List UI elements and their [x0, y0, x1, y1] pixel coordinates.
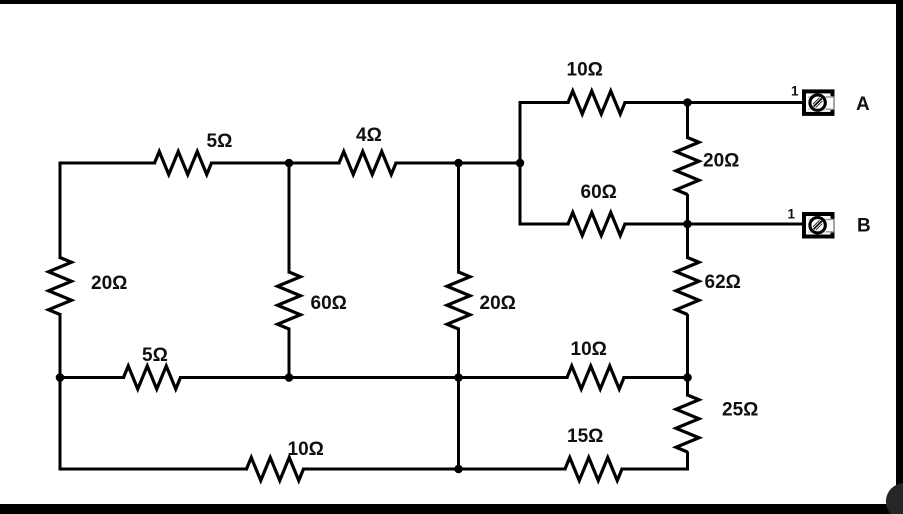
- wire node2 vertical upper: [457, 163, 460, 272]
- wire left vertical lower + bottom left run: [60, 315, 247, 470]
- svg-text:20Ω: 20Ω: [703, 151, 739, 172]
- svg-text:B: B: [857, 216, 871, 237]
- wire row right: [624, 376, 688, 379]
- wire bottom middle run: [304, 468, 566, 471]
- wire row middle: [181, 376, 568, 379]
- node dot A-line: [683, 98, 692, 107]
- svg-text:10Ω: 10Ω: [567, 60, 603, 81]
- svg-text:60Ω: 60Ω: [311, 293, 347, 314]
- wire bottom right run + right corner up: [622, 453, 688, 469]
- svg-text:62Ω: 62Ω: [705, 272, 741, 293]
- resistor 10ohm bottom: [247, 458, 304, 481]
- node dot bottom-20ohm: [454, 465, 463, 474]
- node dot row-right: [683, 373, 692, 382]
- svg-text:4Ω: 4Ω: [356, 125, 382, 146]
- node dot B-line: [683, 220, 692, 229]
- wire main horizontal right: [396, 162, 520, 165]
- resistor 20ohm A-B vertical: [676, 138, 699, 195]
- wire A-line to terminal A: [625, 101, 802, 104]
- svg-text:1: 1: [788, 207, 796, 222]
- right black border: [896, 0, 903, 514]
- resistor 62ohm vertical: [676, 258, 699, 315]
- resistor 10ohm top: [568, 91, 625, 114]
- dark rounded corner overlay: [886, 483, 903, 514]
- wire A-line split vertical: [520, 103, 568, 225]
- resistor 60ohm mid vertical: [278, 272, 301, 329]
- wire right column segment 3: [686, 316, 689, 396]
- resistor 20ohm left vertical: [49, 258, 72, 315]
- svg-text:20Ω: 20Ω: [480, 293, 516, 314]
- wire B-line to terminal B: [625, 223, 802, 226]
- wire main horizontal left + left vertical: [60, 163, 155, 258]
- node dot main-20ohm: [454, 159, 463, 168]
- terminal B: [804, 214, 837, 237]
- node dot row-60ohm: [285, 373, 294, 382]
- svg-text:25Ω: 25Ω: [722, 400, 758, 421]
- svg-text:60Ω: 60Ω: [581, 182, 617, 203]
- node dot main-split: [516, 159, 525, 168]
- resistor 60ohm B-line: [568, 213, 625, 236]
- svg-text:15Ω: 15Ω: [567, 426, 603, 447]
- node dot row-20ohm: [454, 373, 463, 382]
- svg-text:5Ω: 5Ω: [207, 131, 233, 152]
- node dot row-left: [56, 373, 65, 382]
- wire right column segment 2: [686, 196, 689, 258]
- resistor 5ohm top: [155, 152, 212, 175]
- resistor 4ohm: [339, 152, 396, 175]
- terminal A: [804, 91, 837, 114]
- svg-text:20Ω: 20Ω: [91, 273, 127, 294]
- resistor 25ohm vertical: [676, 395, 699, 452]
- svg-text:1: 1: [791, 84, 799, 99]
- resistor 5ohm row: [124, 366, 181, 389]
- wire node2 vertical lower: [457, 329, 460, 469]
- top black bar: [0, 0, 903, 4]
- wire row left: [60, 376, 124, 379]
- svg-text:A: A: [856, 94, 870, 115]
- wire node1 vertical lower: [288, 329, 291, 378]
- node dot main-60ohm: [285, 159, 294, 168]
- resistor 15ohm bottom: [565, 458, 622, 481]
- bottom black bar: [0, 504, 903, 514]
- resistor 10ohm row: [567, 366, 624, 389]
- svg-text:5Ω: 5Ω: [142, 345, 168, 366]
- wire node1 vertical upper: [288, 163, 291, 272]
- resistor 20ohm mid vertical: [447, 272, 470, 329]
- wire right column segment 1: [686, 103, 689, 138]
- svg-text:10Ω: 10Ω: [571, 339, 607, 360]
- wire main horizontal mid: [212, 162, 340, 165]
- svg-text:10Ω: 10Ω: [288, 439, 324, 460]
